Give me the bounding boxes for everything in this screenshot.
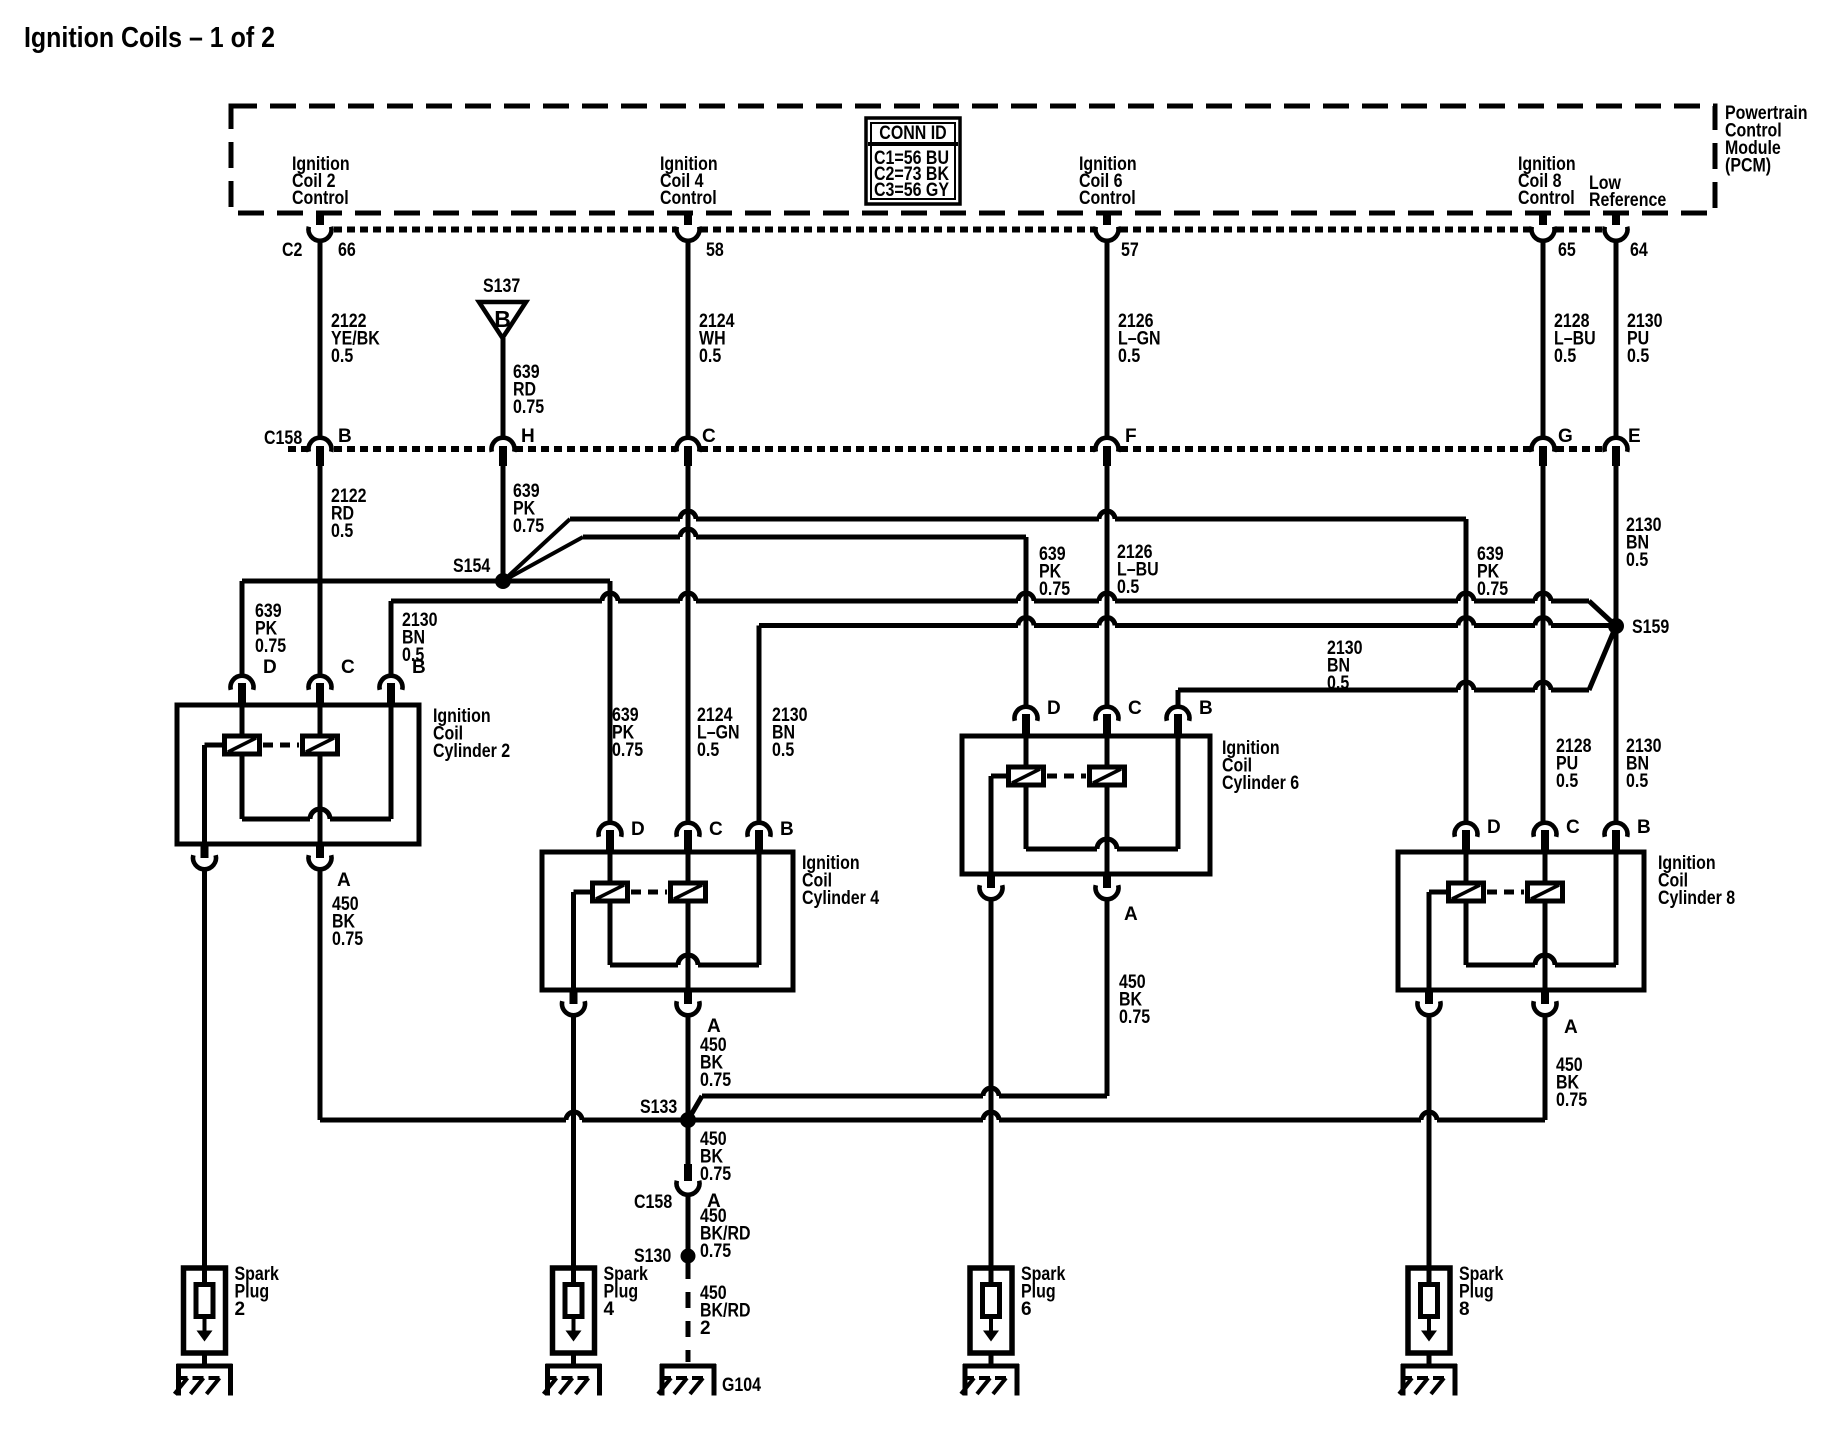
svg-text:D: D bbox=[1047, 698, 1061, 719]
wire 2122 YE/BK bbox=[318, 242, 323, 439]
svg-text:0.75: 0.75 bbox=[1039, 579, 1070, 600]
svg-text:0.5: 0.5 bbox=[1554, 346, 1577, 367]
svg-text:CONN ID: CONN ID bbox=[879, 123, 946, 144]
connector C2 pin 58 bbox=[684, 213, 692, 225]
wire 639 RD bbox=[501, 338, 506, 439]
wire 639 PK branch to coil 8 D bbox=[570, 517, 680, 522]
wire 450 BK coil 8 A to S133 bbox=[1543, 1016, 1548, 1120]
wire spark plug 8 lead bbox=[1427, 1016, 1432, 1268]
wire 639 PK branch to coil 6 D bbox=[583, 535, 680, 540]
connector C158 pin C bbox=[677, 438, 700, 452]
svg-text:0.75: 0.75 bbox=[612, 740, 643, 761]
svg-text:0.5: 0.5 bbox=[1627, 346, 1650, 367]
svg-text:0.75: 0.75 bbox=[513, 516, 544, 537]
connector C158 pin F bbox=[1096, 438, 1119, 452]
svg-text:C3=56 GY: C3=56 GY bbox=[874, 180, 949, 201]
svg-text:65: 65 bbox=[1558, 240, 1576, 261]
wire low reference (C158-E down to S159) bbox=[1614, 464, 1619, 626]
svg-text:0.75: 0.75 bbox=[700, 1241, 731, 1262]
svg-text:6: 6 bbox=[1021, 1299, 1032, 1320]
svg-text:Control: Control bbox=[660, 188, 717, 209]
svg-text:C: C bbox=[1566, 817, 1580, 838]
svg-text:0.75: 0.75 bbox=[700, 1070, 731, 1091]
svg-text:0.75: 0.75 bbox=[1119, 1007, 1150, 1028]
svg-text:0.5: 0.5 bbox=[772, 740, 795, 761]
svg-text:8: 8 bbox=[1459, 1299, 1470, 1320]
svg-text:G104: G104 bbox=[722, 1375, 761, 1396]
svg-text:S133: S133 bbox=[640, 1097, 677, 1118]
svg-text:(PCM): (PCM) bbox=[1725, 156, 1771, 177]
ignition coil cylinder 6 bbox=[962, 698, 1213, 899]
splice S137 triangle bbox=[479, 302, 526, 338]
connector C158 pin E bbox=[1605, 438, 1628, 452]
connector C2 dotted line bbox=[334, 227, 675, 233]
svg-text:A: A bbox=[337, 870, 351, 891]
svg-text:Cylinder 6: Cylinder 6 bbox=[1222, 773, 1299, 794]
ground (spark plug 8) bbox=[1399, 1364, 1457, 1396]
ignition coil cylinder 4 bbox=[542, 819, 794, 1015]
svg-text:F: F bbox=[1125, 426, 1137, 447]
svg-text:Cylinder 8: Cylinder 8 bbox=[1658, 888, 1735, 909]
wire 450 BK S133 to C158-A bbox=[686, 1120, 691, 1168]
spark plug 4 bbox=[553, 1268, 595, 1366]
wire 639 PK diagonal to coil 6 branch bbox=[503, 537, 583, 581]
ignition coil cylinder 2 bbox=[177, 657, 426, 869]
connector C2 pin 57 bbox=[1103, 213, 1111, 225]
wire 450 BK coil 2 A to S133 bbox=[318, 870, 323, 1120]
svg-text:B: B bbox=[338, 426, 352, 447]
wire 639 PK (C158-H to S154) bbox=[501, 464, 506, 581]
svg-text:0.75: 0.75 bbox=[513, 397, 544, 418]
svg-text:2: 2 bbox=[235, 1299, 246, 1320]
PCM module box (dashed) bbox=[231, 106, 1715, 213]
svg-text:0.75: 0.75 bbox=[1477, 579, 1508, 600]
svg-text:D: D bbox=[263, 657, 277, 678]
splice S133 bbox=[680, 1112, 696, 1128]
wire 2130 PU bbox=[1614, 242, 1619, 439]
wire 450 BK coil 4 A to S133 bbox=[686, 1016, 691, 1120]
svg-text:A: A bbox=[1124, 904, 1138, 925]
connector C2 pin 64 bbox=[1612, 213, 1620, 225]
connector C158 pin B bbox=[309, 438, 332, 452]
svg-text:B: B bbox=[1199, 698, 1213, 719]
svg-text:E: E bbox=[1628, 426, 1641, 447]
svg-text:C: C bbox=[709, 819, 723, 840]
svg-text:57: 57 bbox=[1121, 240, 1139, 261]
svg-text:C158: C158 bbox=[264, 428, 302, 449]
wire 2124 WH bbox=[686, 242, 691, 439]
splice S159 bbox=[1608, 618, 1624, 634]
spark plug 2 bbox=[184, 1268, 226, 1366]
wire spark plug 4 lead bbox=[571, 1016, 576, 1268]
svg-text:Reference: Reference bbox=[1589, 190, 1666, 211]
spark plug 6 bbox=[970, 1268, 1012, 1366]
svg-text:0.5: 0.5 bbox=[1327, 673, 1350, 694]
wire 639 PK diagonal to coil 8 branch bbox=[503, 519, 570, 581]
svg-text:64: 64 bbox=[1630, 240, 1648, 261]
wire 450 BK/RD to G104 (dashed) bbox=[686, 1263, 691, 1362]
wire coil 6 control (C158-F down) bbox=[1105, 464, 1110, 707]
wire low reference S159 to coil 8 B bbox=[1614, 626, 1619, 823]
wire 2130 BN S159 to coil 6 B bbox=[1589, 626, 1616, 690]
wire coil 8 control (C158-G down) bbox=[1541, 464, 1546, 823]
svg-text:0.5: 0.5 bbox=[331, 346, 354, 367]
wire 450 BK/RD C158 to S130 bbox=[686, 1194, 691, 1256]
connector C2 pin 65 bbox=[1539, 213, 1547, 225]
ignition coil cylinder 8 bbox=[1398, 817, 1651, 1015]
svg-text:B: B bbox=[412, 657, 426, 678]
svg-text:A: A bbox=[1564, 1017, 1578, 1038]
svg-text:Ignition Coils – 1 of 2: Ignition Coils – 1 of 2 bbox=[24, 22, 275, 54]
svg-text:D: D bbox=[1487, 817, 1501, 838]
svg-text:0.75: 0.75 bbox=[700, 1164, 731, 1185]
connector C158 pin G bbox=[1532, 438, 1555, 452]
svg-text:B: B bbox=[780, 819, 794, 840]
connector C158 pin H bbox=[492, 438, 515, 452]
svg-text:C: C bbox=[341, 657, 355, 678]
svg-text:0.5: 0.5 bbox=[1626, 771, 1649, 792]
svg-text:B: B bbox=[1637, 817, 1651, 838]
ground (spark plug 4) bbox=[544, 1364, 602, 1396]
svg-text:H: H bbox=[521, 426, 535, 447]
svg-text:A: A bbox=[707, 1016, 721, 1037]
svg-text:4: 4 bbox=[604, 1299, 615, 1320]
svg-text:Control: Control bbox=[292, 188, 349, 209]
svg-text:C158: C158 bbox=[634, 1192, 672, 1213]
wire 2130 BN coil 4 B to S159 bbox=[757, 626, 762, 824]
svg-text:0.5: 0.5 bbox=[331, 521, 354, 542]
connector C158 pin A bbox=[684, 1164, 692, 1181]
wire 2122 RD (C158-B to coil 2 C) bbox=[318, 464, 323, 676]
svg-text:0.5: 0.5 bbox=[1556, 771, 1579, 792]
connector C158 dotted line bbox=[288, 446, 308, 452]
splice S130 bbox=[681, 1249, 696, 1264]
svg-text:Control: Control bbox=[1079, 188, 1136, 209]
wire 450 BK coil 6 A to S133 bbox=[1105, 900, 1110, 1096]
svg-text:Cylinder 2: Cylinder 2 bbox=[433, 741, 510, 762]
spark plug 8 bbox=[1408, 1268, 1450, 1366]
svg-text:B: B bbox=[494, 306, 511, 332]
ground G104 bbox=[658, 1364, 716, 1396]
connector C2 pin 66 bbox=[316, 213, 324, 225]
wire spark plug 2 lead bbox=[202, 870, 207, 1268]
wire 639 PK to coil 2 D bbox=[242, 579, 503, 584]
wire spark plug 6 lead bbox=[989, 900, 994, 1268]
svg-text:0.75: 0.75 bbox=[1556, 1090, 1587, 1111]
svg-text:0.5: 0.5 bbox=[1117, 577, 1140, 598]
wire coil 4 control (C158-C down) bbox=[686, 464, 691, 823]
svg-text:58: 58 bbox=[706, 240, 724, 261]
svg-text:G: G bbox=[1558, 426, 1573, 447]
CONN ID table bbox=[866, 118, 960, 204]
svg-text:D: D bbox=[631, 819, 645, 840]
svg-text:Cylinder 4: Cylinder 4 bbox=[802, 888, 880, 909]
svg-text:C: C bbox=[702, 426, 716, 447]
splice S154 bbox=[495, 573, 511, 589]
svg-text:C2: C2 bbox=[282, 240, 302, 261]
svg-text:0.5: 0.5 bbox=[1118, 346, 1141, 367]
svg-text:66: 66 bbox=[338, 240, 356, 261]
ground (spark plug 2) bbox=[175, 1364, 233, 1396]
wire 639 PK to coil 4 D bbox=[503, 579, 610, 584]
wire 2128 L-BU bbox=[1541, 242, 1546, 439]
svg-text:0.5: 0.5 bbox=[1626, 550, 1649, 571]
svg-text:Control: Control bbox=[1518, 188, 1575, 209]
svg-text:C: C bbox=[1128, 698, 1142, 719]
svg-text:S154: S154 bbox=[453, 556, 491, 577]
wire 2130 BN coil 2 B to S159 bbox=[389, 601, 394, 676]
svg-text:0.5: 0.5 bbox=[699, 346, 722, 367]
ground (spark plug 6) bbox=[961, 1364, 1019, 1396]
svg-text:S159: S159 bbox=[1632, 617, 1669, 638]
svg-text:0.5: 0.5 bbox=[697, 740, 720, 761]
svg-text:0.75: 0.75 bbox=[255, 636, 286, 657]
svg-text:2: 2 bbox=[700, 1318, 711, 1339]
wire 2126 L-GN bbox=[1105, 242, 1110, 439]
svg-text:0.75: 0.75 bbox=[332, 929, 363, 950]
svg-text:S137: S137 bbox=[483, 276, 520, 297]
